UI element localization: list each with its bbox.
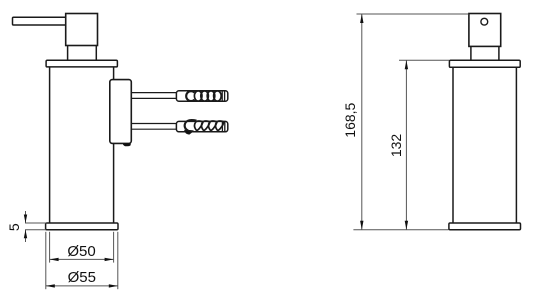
- svg-text:Ø55: Ø55: [68, 269, 96, 286]
- svg-text:5: 5: [6, 223, 22, 231]
- svg-text:168,5: 168,5: [342, 102, 358, 137]
- svg-text:Ø50: Ø50: [67, 243, 95, 260]
- svg-text:132: 132: [388, 134, 404, 158]
